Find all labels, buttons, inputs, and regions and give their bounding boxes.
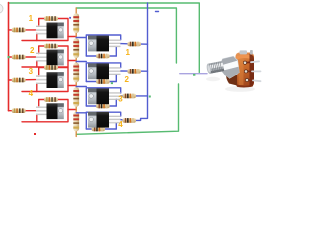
resistor RD chain xyxy=(73,87,79,107)
svg-text:2: 2 xyxy=(125,75,130,84)
wire: blue loop unit 3 xyxy=(76,87,147,107)
transistor Q3 (left) xyxy=(36,72,64,88)
svg-text:2: 2 xyxy=(30,46,35,55)
slab light band xyxy=(239,55,244,85)
resistor R3 top xyxy=(44,65,58,70)
wire: red loop unit 2 xyxy=(9,46,77,67)
resistor R7 below xyxy=(96,104,110,109)
wire: blue loop unit 2 xyxy=(76,62,147,82)
top face band xyxy=(236,55,253,61)
wire: red loop unit 3 xyxy=(9,68,77,92)
transistor Q8 (right) xyxy=(88,112,121,128)
wire: blue stub top xyxy=(156,11,159,13)
resistor R1 top xyxy=(44,16,58,21)
resistor RC chain xyxy=(73,63,79,83)
hex nut xyxy=(219,55,241,80)
dark shadow under nut xyxy=(226,73,237,86)
bushing xyxy=(233,59,238,75)
resistor R5 below xyxy=(96,54,110,59)
resistor RE chain xyxy=(73,112,79,132)
transistor Q5 (right) xyxy=(88,36,121,52)
wire: green rail 1 top xyxy=(9,3,200,73)
wire: red loop unit 1 xyxy=(9,19,77,41)
svg-text:1: 1 xyxy=(29,14,34,23)
wire: blue right bus xyxy=(136,3,148,120)
wire: blue loop unit 4 xyxy=(76,112,124,129)
partial gray component at left edge xyxy=(0,4,3,13)
svg-text:3: 3 xyxy=(29,67,34,76)
resistor R2 top xyxy=(44,44,58,49)
right dark edge xyxy=(250,54,255,87)
transistor Q7 (right) xyxy=(88,88,121,104)
node green dot unit2 xyxy=(111,82,113,84)
resistor R5 series xyxy=(127,42,141,47)
wire: red loop unit 4 xyxy=(9,100,77,122)
svg-text:4: 4 xyxy=(118,120,123,129)
resistor R8 below xyxy=(92,127,106,132)
transistor Q4 (left) xyxy=(36,103,64,119)
pins xyxy=(247,61,261,81)
bottom dark edge xyxy=(236,84,253,88)
resistor RA chain xyxy=(73,13,79,33)
svg-text:3: 3 xyxy=(118,95,123,104)
resistor R7 series xyxy=(122,94,136,99)
transistor Q6 (right) xyxy=(88,63,121,79)
node green dot near lavender xyxy=(193,74,195,76)
resistor R3 gate (left) xyxy=(12,78,26,83)
transistor Q1 (left) xyxy=(36,23,64,39)
transistor Q2 (left) xyxy=(36,50,64,66)
resistor R6 below xyxy=(96,79,110,84)
ground shadow xyxy=(225,86,255,92)
knurled shaft xyxy=(206,61,224,74)
svg-text:1: 1 xyxy=(126,48,131,57)
wire: chain leads xyxy=(75,8,77,137)
resistor R2 gate (left) xyxy=(12,55,26,60)
svg-text:4: 4 xyxy=(29,89,34,98)
wire: lavender to pot xyxy=(180,73,207,75)
resistor R6 series xyxy=(127,69,141,74)
lug holes xyxy=(243,61,246,64)
potentiometer VR1 xyxy=(206,50,261,92)
node red dot bottom left xyxy=(34,133,36,135)
wire: green bottom xyxy=(76,84,178,134)
wire: blue loop unit 1 xyxy=(76,35,147,56)
orange slab body xyxy=(236,53,255,88)
resistor R8 series xyxy=(122,118,136,123)
top metal tabs xyxy=(240,50,248,54)
node dot bus unit2 xyxy=(8,56,10,58)
resistor RB chain xyxy=(73,38,79,58)
resistor R4 gate (left) xyxy=(12,108,26,113)
resistor R1 gate (left) xyxy=(12,28,26,33)
node blue dot near unit1 xyxy=(69,17,71,19)
node green dot right bus xyxy=(149,96,151,98)
resistor R4 top xyxy=(44,97,58,102)
wire: green rail 2 xyxy=(76,8,176,63)
wire: red left bus xyxy=(8,3,10,111)
